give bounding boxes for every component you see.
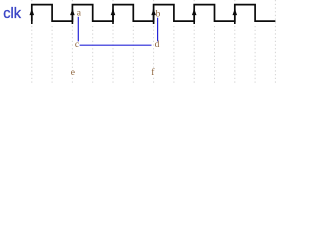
dashed gridline fall edge 6: [254, 26, 256, 85]
dashed gridline fall edge 3: [132, 26, 134, 85]
svg-text:d: d: [155, 40, 160, 50]
blue connector c to d: [80, 44, 152, 46]
white patch under e: [70, 70, 76, 76]
dashed gridline fall edge 2: [92, 26, 94, 85]
dashed gridline rise edge 5: [193, 0, 195, 85]
blue connector b to d: [157, 18, 159, 42]
dashed gridline rise edge 6: [234, 0, 236, 85]
svg-text:e: e: [71, 68, 75, 78]
svg-text:clk: clk: [3, 6, 21, 22]
svg-text:b: b: [156, 9, 161, 19]
rising edge arrow 4: [151, 9, 156, 24]
rising edge arrow 3: [111, 9, 116, 24]
dashed gridline rise edge 1: [31, 0, 33, 85]
dashed gridline rise edge 4: [153, 0, 155, 85]
dashed gridline fall edge 4: [173, 26, 175, 85]
rising edge arrow 5: [192, 9, 197, 24]
white patch under f: [151, 70, 156, 76]
rising edge arrow 6: [233, 9, 238, 24]
clk waveform: [32, 5, 276, 22]
dashed gridline rise edge 2: [71, 0, 73, 85]
svg-text:c: c: [75, 40, 79, 50]
dashed gridline rise edge 7 (end of wave): [274, 0, 276, 85]
blue connector a to c: [77, 17, 79, 42]
dashed gridline rise edge 3: [112, 0, 114, 85]
rising edge arrow 2: [70, 9, 75, 24]
dashed gridline fall edge 5: [214, 26, 216, 85]
rising edge arrow 1: [30, 9, 35, 24]
dashed gridline fall edge 1: [51, 26, 53, 85]
